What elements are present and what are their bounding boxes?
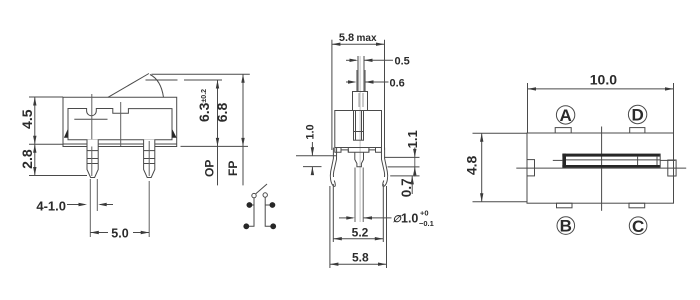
body rectangle <box>335 111 382 148</box>
svg-text:−0.1: −0.1 <box>419 219 434 228</box>
dimension 0.5 <box>346 59 356 61</box>
schematic lever <box>256 184 267 194</box>
dimension 5.2 <box>333 238 383 240</box>
base seam line <box>63 143 177 145</box>
base band <box>335 148 382 153</box>
center line <box>359 56 361 222</box>
contact bar top band <box>562 154 660 157</box>
dimension 5.8 bottom <box>330 263 387 265</box>
lever arm <box>108 74 149 98</box>
lever wire outer edges <box>356 70 358 92</box>
hidden wire lines <box>358 93 360 107</box>
contact stub right <box>660 159 675 161</box>
terminal B <box>243 223 249 229</box>
pin edge extension lines <box>89 179 91 237</box>
svg-text:+0: +0 <box>420 209 429 218</box>
lever swing arc <box>150 75 164 98</box>
svg-text:0.6: 0.6 <box>390 78 405 90</box>
extension line middle <box>29 143 63 145</box>
FP extension line <box>152 73 250 75</box>
svg-text:5.0: 5.0 <box>111 227 128 241</box>
svg-text:C: C <box>272 224 275 229</box>
terminal label C <box>629 217 647 235</box>
inner housing box with notches <box>68 109 172 140</box>
contact stub left <box>553 159 563 161</box>
seating plane lines right <box>384 156 420 158</box>
svg-text:A: A <box>559 106 571 125</box>
extension line right tall <box>384 40 386 150</box>
wire right <box>265 197 270 226</box>
contact bar right end <box>659 154 661 168</box>
extension line top <box>29 96 63 98</box>
svg-text:D: D <box>271 203 274 208</box>
terminal C <box>270 223 276 229</box>
locating boss <box>355 152 364 167</box>
side tab right <box>668 160 676 176</box>
svg-text:2.8: 2.8 <box>19 149 35 169</box>
boss edge extension lines <box>354 168 356 223</box>
movable contact arm line <box>74 118 107 120</box>
horizontal center line <box>516 167 686 169</box>
svg-text:B: B <box>245 224 248 229</box>
extension line bottom <box>29 175 87 177</box>
terminal label B <box>557 217 575 235</box>
svg-text:4.5: 4.5 <box>19 109 35 129</box>
center line left pin <box>91 94 93 146</box>
contact bar left end <box>562 154 566 168</box>
svg-text:B: B <box>560 217 572 236</box>
lever wire left edge <box>357 56 359 92</box>
terminal D <box>270 202 276 208</box>
terminal A <box>247 202 253 208</box>
right mounting leg <box>383 148 388 187</box>
internal vertical line <box>120 102 122 146</box>
bottom tab right <box>629 203 645 208</box>
right pin crimp lines <box>144 158 155 160</box>
svg-text:5.2: 5.2 <box>352 225 369 239</box>
dimension 4.5 / 2.8 vertical line <box>34 97 36 176</box>
svg-text:5.8: 5.8 <box>339 32 354 44</box>
OP dashed extension line <box>146 79 178 81</box>
svg-text:1.1: 1.1 <box>405 130 420 148</box>
svg-text:6.8: 6.8 <box>214 103 230 123</box>
svg-text:FP: FP <box>226 161 240 176</box>
wire left <box>249 198 255 227</box>
contact circle right <box>263 193 267 197</box>
left pin <box>87 140 98 178</box>
right pin <box>144 140 155 178</box>
svg-text:10.0: 10.0 <box>590 72 617 88</box>
dimension 6.3 line <box>217 80 219 185</box>
dimension 0.6 <box>346 81 355 83</box>
dimension 6.8 line <box>242 74 244 185</box>
svg-text:C: C <box>632 217 644 236</box>
dimension phi 1.0 <box>339 217 353 219</box>
svg-text:1.0: 1.0 <box>305 124 317 139</box>
terminal label A <box>556 106 574 124</box>
base bottom extension line <box>181 145 249 147</box>
stub D <box>265 204 270 206</box>
contact bar divider <box>637 157 639 165</box>
contact bar divider 2 <box>656 157 658 165</box>
side tab left <box>527 160 535 176</box>
extension lines 10.0 <box>527 83 529 133</box>
contact circle left <box>252 193 256 197</box>
svg-text:1.0: 1.0 <box>401 212 418 226</box>
dimension 5.0 <box>90 232 108 234</box>
stub A <box>252 204 255 206</box>
stem upper block <box>353 92 368 111</box>
extension line left tall <box>331 40 333 150</box>
svg-text:A: A <box>248 203 251 208</box>
lever wire right edge <box>363 56 365 92</box>
pin upper crimp lines <box>87 150 98 152</box>
body outline <box>63 97 177 146</box>
terminal label D <box>628 105 646 123</box>
svg-text:D: D <box>631 106 643 125</box>
dimension 5.2 extension lines <box>332 184 334 242</box>
contact bar bottom band <box>562 165 660 168</box>
svg-text:0.5: 0.5 <box>395 56 410 68</box>
bottom tab left <box>557 203 573 208</box>
top view body <box>527 133 674 203</box>
dimension 5.8 extension lines <box>329 186 331 268</box>
black wedge left <box>64 129 68 138</box>
black wedge right <box>172 129 176 138</box>
svg-text:4.8: 4.8 <box>464 155 480 175</box>
top tab left <box>555 128 571 133</box>
left mounting leg <box>330 148 335 187</box>
top tab right <box>630 128 645 133</box>
svg-text:OP: OP <box>202 160 216 177</box>
vertical center line <box>601 127 603 211</box>
svg-text:5.8: 5.8 <box>352 251 369 265</box>
contact bar mid line <box>566 159 660 161</box>
stem inside body <box>354 111 364 141</box>
svg-text:4-1.0: 4-1.0 <box>36 199 66 214</box>
left pin crimp lines <box>87 158 98 160</box>
svg-text:max: max <box>356 33 376 44</box>
pin center lines <box>91 147 93 177</box>
